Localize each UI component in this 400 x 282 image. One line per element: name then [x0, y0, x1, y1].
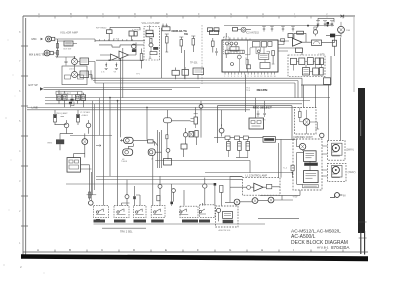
box osc L	[172, 70, 179, 75]
IC inner mute circle	[258, 50, 261, 53]
bus B lines	[27, 98, 330, 110]
svg-text:MIC: MIC	[32, 37, 37, 41]
border frame top line	[23, 15, 355, 17]
bracket under switches	[102, 227, 146, 229]
svg-text:R/P HEAD: R/P HEAD	[96, 27, 107, 30]
trimmer pot 2	[115, 63, 118, 70]
transistor Q401	[299, 143, 305, 149]
test point circle TP5	[219, 128, 224, 133]
svg-text:REG: REG	[48, 142, 53, 144]
power rail above IC	[224, 25, 334, 27]
dashed box rec mute drive	[295, 108, 317, 135]
box det3	[320, 68, 324, 76]
mid bottom comps	[203, 184, 207, 188]
svg-text:FWD/REV CONT: FWD/REV CONT	[294, 136, 314, 139]
svg-text:A: A	[37, 248, 39, 252]
erase head boxes	[129, 31, 134, 36]
remote jack	[89, 201, 94, 206]
load comp	[291, 165, 294, 171]
border frame left ticks	[21, 46, 28, 226]
box mic amp 1	[80, 58, 89, 65]
small comps right of IC	[281, 39, 285, 42]
wires transistor chain	[225, 195, 293, 202]
mid col circle e	[166, 149, 170, 153]
svg-text:5: 5	[238, 76, 239, 78]
svg-text:B: B	[69, 248, 71, 252]
svg-text:13: 13	[264, 76, 266, 78]
box det1	[303, 68, 310, 76]
head amp D symbol 1	[124, 137, 134, 143]
IC inner wiring	[227, 45, 270, 72]
comps in control amp	[266, 184, 271, 188]
svg-text:E: E	[166, 12, 168, 16]
bus mid lines	[44, 87, 201, 89]
mid col comp d	[181, 144, 187, 149]
transistor Q102	[72, 72, 78, 78]
svg-text:2: 2	[228, 76, 229, 78]
svg-text:AYU.B-1: AYU.B-1	[317, 246, 329, 250]
border frame left double line	[23, 16, 26, 255]
ext input arrow	[40, 87, 44, 90]
muting box	[223, 211, 233, 218]
wire head top	[110, 27, 140, 30]
dark component	[330, 34, 335, 38]
op-amp A401	[254, 183, 263, 191]
dashed box muting	[216, 206, 238, 227]
bus A stubs left	[91, 70, 95, 83]
svg-text:TRK 2 SEL: TRK 2 SEL	[120, 231, 133, 234]
svg-text:4k 7UF: 4k 7UF	[113, 39, 120, 41]
dark dot bottom	[170, 202, 173, 205]
svg-text:11: 11	[257, 76, 259, 78]
op-amp U301	[293, 38, 303, 46]
svg-text:H: H	[262, 12, 264, 16]
switch label 1	[94, 220, 106, 223]
svg-text:VOL+DR AMP: VOL+DR AMP	[60, 31, 78, 35]
svg-text:4.7k: 4.7k	[101, 72, 105, 74]
motor M1	[332, 144, 339, 151]
wire eq section	[100, 43, 136, 58]
resistor column R132	[180, 40, 183, 47]
comp left of opamp	[288, 34, 293, 38]
relay comp small	[148, 140, 154, 143]
dark comp D1a	[153, 47, 158, 50]
resistor R121	[150, 38, 152, 43]
transistor Q302	[313, 30, 317, 34]
svg-text:6V: 6V	[343, 196, 346, 198]
border frame right dark bar	[358, 88, 365, 233]
svg-text:16: 16	[274, 76, 276, 78]
svg-text:TL-4: TL-4	[283, 167, 287, 169]
box line in pair A	[57, 95, 62, 100]
resistor column R133	[192, 39, 195, 46]
IC inner preamp box	[230, 47, 239, 51]
svg-text:4: 4	[234, 76, 235, 78]
wire box to head amp	[58, 41, 78, 44]
transistor Q301	[338, 26, 345, 33]
mid col wires	[167, 107, 197, 159]
label bar 2	[303, 184, 319, 187]
resistor R311	[53, 115, 56, 123]
dashed box reel motor	[327, 141, 345, 161]
box motor drive 1	[304, 151, 317, 162]
dashed switch box 4	[151, 206, 165, 218]
dashed box PB EQ	[144, 27, 160, 61]
meter box	[312, 40, 322, 45]
svg-text:TP-6: TP-6	[246, 90, 250, 92]
svg-text:E.HEAD: E.HEAD	[132, 28, 140, 31]
test point circle bottom2	[158, 184, 162, 188]
title block text	[291, 229, 350, 250]
IC inner block r1	[253, 42, 261, 48]
wires osc	[162, 28, 199, 79]
motor M2	[332, 166, 339, 173]
transistor chain q501	[234, 199, 240, 205]
dashed box capstan motor	[327, 163, 346, 181]
switch label 2	[114, 220, 126, 223]
IC inner small rect	[247, 65, 251, 69]
test point circle bottom1	[125, 195, 129, 199]
long bus wires lower	[66, 176, 242, 202]
box eq network 2	[146, 34, 154, 37]
box line in pair B	[62, 95, 67, 100]
resistor R101	[56, 44, 58, 49]
wire head main line	[95, 34, 145, 41]
svg-text:EXT SP: EXT SP	[29, 83, 38, 87]
wires IC right edge out	[278, 41, 302, 51]
head amp D symbol 2	[123, 149, 133, 156]
box lpf3	[307, 58, 313, 65]
svg-text:VOL-4 CUT AMP: VOL-4 CUT AMP	[142, 22, 161, 25]
label strip tape select	[56, 91, 82, 94]
resistor R102	[56, 51, 58, 56]
test point circle bottom3	[172, 189, 176, 193]
svg-text:(2WAY): (2WAY)	[346, 148, 354, 151]
cap c301 cluster	[70, 99, 73, 102]
switch label 4	[151, 220, 164, 223]
power block box	[67, 158, 81, 173]
box small r301	[296, 48, 303, 53]
trimmer pot 1	[105, 63, 108, 70]
IC U201 main box	[222, 40, 278, 72]
svg-text:15: 15	[270, 76, 272, 78]
box mpx	[233, 28, 238, 32]
svg-text:F: F	[198, 12, 200, 16]
svg-text:1: 1	[224, 76, 225, 78]
svg-text:T-3008: T-3008	[121, 161, 127, 163]
switch slash a	[154, 142, 157, 146]
svg-text:D: D	[134, 12, 136, 16]
long wire to load	[205, 172, 292, 174]
switch label 5	[182, 220, 198, 223]
box narrow right	[332, 40, 336, 46]
electro cap E1	[227, 142, 231, 151]
electro cap E3	[246, 142, 250, 151]
wires to motors	[322, 146, 327, 176]
svg-text:TP-301: TP-301	[190, 63, 198, 65]
cap c203	[215, 48, 218, 56]
svg-text:LINE: LINE	[32, 106, 38, 110]
box lpf1	[291, 58, 297, 64]
svg-text:12: 12	[260, 76, 262, 78]
vertical risers right	[295, 38, 341, 141]
box lpf5	[319, 58, 323, 65]
resistor R321	[299, 112, 302, 118]
box line amp enclosure	[62, 66, 87, 85]
svg-text:9: 9	[251, 76, 252, 78]
wire channel line	[96, 59, 144, 61]
box radio pair A	[75, 95, 80, 100]
transistor Q111	[132, 44, 136, 48]
mid col circle f	[183, 133, 187, 137]
IC bottom pins	[225, 72, 275, 75]
wires lpf bank	[294, 61, 322, 71]
IC inner block b1	[259, 54, 269, 60]
svg-text:3: 3	[231, 76, 232, 78]
svg-text:(1WAY): (1WAY)	[348, 171, 356, 174]
electro cap E2	[238, 142, 242, 151]
box right of lpf	[324, 78, 331, 85]
IC inner hatched block	[225, 50, 244, 53]
wire pin dropper	[246, 75, 265, 119]
box osc R	[182, 70, 189, 76]
resistor R115	[140, 54, 143, 61]
border frame top letters	[38, 12, 328, 16]
svg-text:LT-4PL: LT-4PL	[319, 54, 326, 56]
transistor chain q502	[252, 198, 258, 204]
muting label	[223, 220, 234, 223]
switch label 3	[134, 220, 147, 223]
svg-text:LL CONTROL AMP: LL CONTROL AMP	[246, 174, 268, 177]
box sw small b	[214, 28, 219, 32]
svg-text:870430A: 870430A	[331, 245, 350, 250]
svg-text:+ 6V: + 6V	[293, 195, 298, 198]
jack dolby	[241, 27, 246, 32]
dashed switch box 6	[200, 205, 216, 218]
wire cross lower	[155, 161, 250, 173]
box pause sw	[297, 31, 304, 34]
dashed switch box 2	[114, 206, 129, 218]
svg-text:G: G	[230, 12, 232, 16]
node dots input	[74, 56, 75, 57]
box r201	[210, 31, 219, 35]
svg-text:6: 6	[241, 76, 242, 78]
decoupling caps above IC	[262, 26, 295, 32]
dark label bar 1	[304, 163, 318, 166]
svg-text:B: B	[70, 12, 72, 16]
mid col comp a	[164, 118, 172, 123]
svg-text:PB EQ AMP: PB EQ AMP	[56, 112, 68, 115]
svg-text:10: 10	[254, 76, 256, 78]
svg-text:C: C	[102, 12, 104, 16]
svg-text:F: F	[197, 248, 199, 252]
svg-text:LT OP ADJ: LT OP ADJ	[80, 111, 90, 114]
svg-text:REC/PB: REC/PB	[257, 88, 268, 92]
resistor r202	[212, 41, 215, 47]
bus A lines	[91, 78, 302, 83]
labelled box osc sw	[263, 137, 275, 143]
dashed switch box 1	[94, 206, 109, 218]
svg-text:IC2 AN7315: IC2 AN7315	[246, 31, 260, 34]
transistor Q101	[72, 59, 78, 65]
mid col comp b	[194, 117, 198, 124]
switch row baseline	[94, 223, 266, 225]
mid col comp c	[189, 132, 194, 137]
svg-text:H: H	[261, 248, 263, 252]
margin speckles	[3, 40, 44, 274]
svg-text:7: 7	[244, 76, 245, 78]
wire input stage links	[58, 57, 96, 80]
mid col box g	[164, 159, 172, 166]
riser pair mid	[121, 48, 123, 104]
wires into control	[230, 177, 242, 180]
resistor column R131	[166, 37, 169, 44]
box bias trap	[162, 27, 170, 31]
caps under label	[257, 111, 260, 118]
muting transistor	[217, 208, 221, 212]
wire J1 to node	[55, 39, 95, 57]
cap C103	[65, 57, 68, 65]
IC inner input circles	[226, 42, 229, 45]
switch risers	[122, 190, 203, 206]
op-amp A1	[119, 51, 129, 59]
wires head amps	[104, 83, 162, 206]
test point circle TP2	[64, 123, 69, 128]
svg-text:+B ADJ: +B ADJ	[81, 114, 88, 117]
test point circle mid	[199, 105, 203, 109]
regulator dark box	[56, 139, 64, 144]
left entry mark	[96, 144, 101, 146]
dashed trimmer box	[224, 37, 230, 54]
transistor Q121	[149, 43, 153, 47]
test point circle TP6	[320, 133, 324, 137]
svg-text:B.E SW: B.E SW	[64, 49, 73, 51]
wires mid left	[55, 124, 89, 157]
border frame bottom thin line with ticks	[23, 251, 368, 253]
box eq network	[146, 30, 153, 33]
border frame bottom heavy bar	[21, 254, 368, 261]
switch label 6	[199, 220, 210, 223]
box input filter	[64, 41, 73, 46]
svg-text:MIX & MIC·TEL: MIX & MIC·TEL	[29, 53, 46, 56]
transistor Q321	[303, 119, 310, 126]
box motor drive 2	[304, 171, 319, 183]
comp bottom small	[157, 195, 160, 200]
svg-text:C·R: C·R	[262, 120, 266, 122]
dashed box LPF bank	[288, 55, 325, 77]
dashed switch box 3	[134, 206, 147, 218]
wire bottom right	[260, 190, 300, 195]
box lpf2	[299, 58, 305, 65]
caps right cluster	[316, 21, 320, 27]
svg-text:A.MUTE SOL: A.MUTE SOL	[219, 229, 232, 232]
border frame right lower double line	[361, 231, 365, 255]
wire right lower	[258, 217, 299, 219]
dark comp on wire	[133, 196, 136, 199]
motor M2 inner box	[332, 165, 342, 177]
series chain resistors	[214, 137, 225, 139]
box mic amp 2	[80, 71, 89, 78]
wire J2 to node	[53, 52, 57, 54]
svg-text:8: 8	[248, 76, 249, 78]
border frame top ticks	[55, 16, 343, 19]
IC inner vco circle	[237, 55, 241, 59]
wires top right	[318, 18, 335, 42]
transistor chain q503	[268, 197, 274, 203]
power in jack	[335, 193, 340, 198]
transistor Q311	[82, 139, 88, 145]
IC inner block b2	[260, 62, 270, 68]
svg-text:14: 14	[267, 76, 269, 78]
REC PB head box	[107, 30, 113, 34]
box radio pair B	[81, 95, 86, 100]
IC inner block r2	[262, 42, 267, 48]
caps right of eq	[162, 24, 168, 28]
border frame bottom letters	[37, 248, 327, 252]
wires power block	[74, 154, 92, 200]
wire head second line	[99, 45, 144, 47]
enclosure box rec section	[218, 106, 293, 143]
vertical rail wires	[70, 98, 112, 195]
box lpf4	[315, 58, 320, 65]
svg-text:REC SELECT: REC SELECT	[253, 106, 272, 110]
dark chip resistor	[96, 219, 100, 221]
box eq2	[150, 52, 157, 55]
dashed box motor control	[293, 139, 322, 190]
IC pin numbers	[224, 76, 275, 78]
resistor R312	[76, 115, 79, 123]
border frame right faint line	[353, 17, 355, 92]
IC inner block r3	[268, 42, 272, 47]
dashed switch box 5	[180, 206, 198, 217]
wires inside motor control	[297, 139, 311, 184]
cap bottoms wire	[236, 157, 248, 159]
node dot cap rail	[327, 22, 329, 24]
IC inner right comps	[272, 51, 275, 56]
svg-text:2SB: 2SB	[346, 30, 351, 32]
motor M1 inner box	[332, 143, 342, 155]
op-amp A2	[111, 54, 119, 61]
IC top pins	[226, 38, 250, 41]
svg-text:E: E	[165, 248, 167, 252]
dashed vertical rail	[201, 25, 203, 84]
small comp lower left	[89, 192, 91, 198]
box sw small a	[208, 28, 213, 32]
box det2	[313, 68, 319, 75]
wires line in boxes	[59, 90, 83, 107]
box rec select	[249, 118, 264, 129]
test point circle TP3	[86, 123, 91, 128]
svg-text:A: A	[38, 12, 40, 16]
box bias osc	[193, 68, 204, 75]
head amp D symbol 3	[148, 149, 155, 156]
